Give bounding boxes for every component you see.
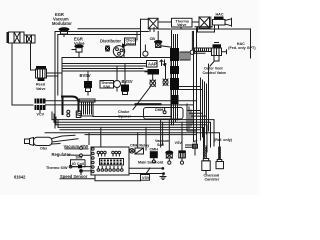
wire reed valve right	[47, 73, 63, 76]
bus left bends	[52, 112, 58, 127]
ECU box	[91, 147, 129, 175]
wire speed sensor	[60, 171, 95, 179]
svg-text:(Fed. only GPT): (Fed. only GPT)	[228, 46, 256, 50]
wire vertical to check area	[140, 19, 142, 57]
valve symbol B	[163, 79, 168, 86]
air pipe	[186, 144, 198, 155]
wire regulator	[68, 154, 91, 156]
wire OVCV pointer	[210, 62, 214, 67]
small black part	[78, 165, 82, 168]
charcoal canister 2	[216, 160, 224, 169]
choke breaker thick bar	[135, 103, 162, 105]
svg-text:VSV: VSV	[175, 141, 183, 145]
ground	[160, 175, 166, 180]
flow arrows	[160, 60, 163, 66]
wire to vac sw	[168, 120, 170, 151]
check valve symbol	[123, 44, 126, 47]
center box	[62, 58, 171, 119]
thermo valve label box	[172, 18, 193, 27]
svg-text:Valve: Valve	[36, 87, 45, 91]
svg-text:Obs: Obs	[40, 147, 47, 151]
air cleaner top-left	[7, 32, 36, 43]
svg-text:VCV: VCV	[37, 113, 45, 117]
svg-text:CB: CB	[150, 37, 156, 41]
thermo S/W label box	[100, 81, 115, 89]
wire X-box stubs	[150, 28, 154, 32]
wire second left rail	[57, 35, 59, 96]
right vertical cluster	[201, 64, 209, 146]
wire HAC bottom	[195, 27, 215, 32]
svg-text:S/W: S/W	[103, 85, 110, 89]
EGR vacuum modulator label	[52, 12, 72, 26]
terminal circles	[80, 147, 83, 150]
BVSV 1	[84, 81, 92, 95]
wire air cleaner right leg	[31, 43, 37, 70]
wire vac sw pointer	[65, 140, 89, 149]
right vertical bundle	[172, 31, 178, 126]
corrugated hose to OVCV	[195, 48, 212, 52]
svg-text:AAP: AAP	[148, 62, 157, 67]
svg-text:Valve: Valve	[177, 23, 186, 27]
wire air cleaner left leg	[12, 43, 33, 105]
EGR valve	[72, 44, 84, 57]
svg-text:Canister: Canister	[205, 178, 220, 182]
svg-text:S/W: S/W	[157, 143, 164, 147]
VSV label box	[141, 168, 151, 180]
svg-text:(Ref. only): (Ref. only)	[214, 138, 233, 142]
wire thermo sw	[72, 166, 91, 168]
check valve label	[125, 38, 138, 46]
pipe foot hatched	[76, 111, 81, 118]
VCV	[35, 99, 46, 113]
svg-text:CMH: CMH	[150, 147, 159, 151]
wire ECU right to ground	[129, 168, 164, 173]
distributor	[104, 45, 125, 58]
svg-text:S/W: S/W	[76, 156, 83, 160]
wire VCV right	[46, 28, 197, 143]
svg-text:IG Coil: IG Coil	[72, 162, 84, 166]
wire bus to ECU	[100, 127, 102, 147]
wire ECU bottom loop	[95, 175, 141, 180]
HAC	[213, 17, 232, 33]
solenoid block stack	[170, 48, 190, 104]
air hose oval bottom-left	[25, 135, 79, 145]
svg-text:VSV: VSV	[142, 176, 150, 180]
wire inner top rail	[58, 34, 141, 36]
svg-text:Distributor: Distributor	[100, 39, 121, 44]
IG coil label	[71, 160, 86, 167]
CB valve	[154, 32, 172, 48]
bus wires	[52, 120, 214, 146]
svg-text:61642: 61642	[14, 175, 26, 180]
wire drops to relay area	[161, 120, 163, 147]
outer vent control valve	[212, 43, 227, 62]
wire check valve drop	[123, 47, 125, 58]
wire right edge	[158, 27, 251, 58]
reed valve	[36, 66, 47, 81]
BVSV 2	[121, 85, 129, 95]
svg-text:Control Valve: Control Valve	[203, 71, 227, 75]
VSV component	[179, 151, 186, 164]
svg-text:Vacuum S/W: Vacuum S/W	[64, 144, 89, 149]
svg-text:Air: Air	[193, 140, 199, 144]
svg-text:Speed Sensor: Speed Sensor	[60, 174, 88, 179]
wire left rail	[54, 32, 56, 129]
charcoal canister 1	[202, 159, 210, 174]
carburetor	[80, 99, 96, 116]
vacuum S/W component	[165, 151, 173, 165]
ECU bottom pins	[97, 167, 123, 172]
port circle mid	[163, 108, 166, 114]
ECU left terminals	[92, 148, 94, 173]
engine outline rounded box	[144, 108, 184, 120]
svg-text:Valve: Valve	[126, 42, 135, 46]
CMH solenoid	[150, 151, 158, 163]
svg-text:HAC: HAC	[216, 13, 224, 17]
choke opener label	[118, 110, 131, 118]
AAP pump	[145, 69, 159, 75]
EGR vacuum modulator	[59, 27, 70, 36]
thermo switch symbol	[114, 77, 121, 91]
vacuum S/W label right	[155, 139, 170, 147]
wire rail segment	[78, 28, 141, 30]
wire component stems	[88, 64, 166, 85]
svg-text:CMH Relay: CMH Relay	[130, 144, 150, 148]
outer vent control valve label	[203, 67, 227, 75]
valve X-box top right	[199, 17, 211, 28]
ECU top pins	[97, 151, 121, 156]
CMH relay	[130, 148, 144, 154]
port circle right	[190, 32, 205, 55]
svg-text:Thermo S/W: Thermo S/W	[46, 166, 68, 170]
wire upper rail right	[141, 19, 200, 22]
wire choke pointer	[133, 87, 151, 110]
charcoal canister label	[204, 173, 220, 181]
svg-text:BVSV: BVSV	[122, 79, 133, 84]
svg-text:CMH: CMH	[155, 108, 164, 112]
AAP label box	[147, 61, 158, 68]
reed valve label	[36, 83, 46, 91]
HAC fed label	[228, 42, 256, 50]
valve X-box top middle	[148, 18, 158, 29]
thick intake pipe	[62, 97, 79, 115]
canister hose 1	[205, 146, 207, 159]
wire relay verticals	[138, 127, 146, 150]
svg-text:BVSV: BVSV	[80, 73, 91, 78]
EGR valve label	[74, 37, 85, 47]
wire top rail	[55, 31, 148, 33]
svg-text:Modulator: Modulator	[52, 21, 72, 26]
staircase corners	[187, 104, 196, 131]
ECU connector strip	[100, 159, 124, 166]
canister hose 2	[219, 147, 221, 160]
bolt circles	[67, 110, 70, 113]
svg-text:Main Solenoid: Main Solenoid	[138, 160, 164, 164]
wire bundle to cluster	[179, 87, 203, 90]
wire inner fan lines	[62, 64, 150, 72]
cluster left bends	[187, 111, 207, 117]
port circle CB	[143, 45, 148, 56]
svg-text:Regulator: Regulator	[52, 152, 72, 157]
valve symbol A	[150, 80, 156, 87]
center box bottom edge	[93, 116, 171, 118]
wire to VSV	[181, 122, 183, 151]
